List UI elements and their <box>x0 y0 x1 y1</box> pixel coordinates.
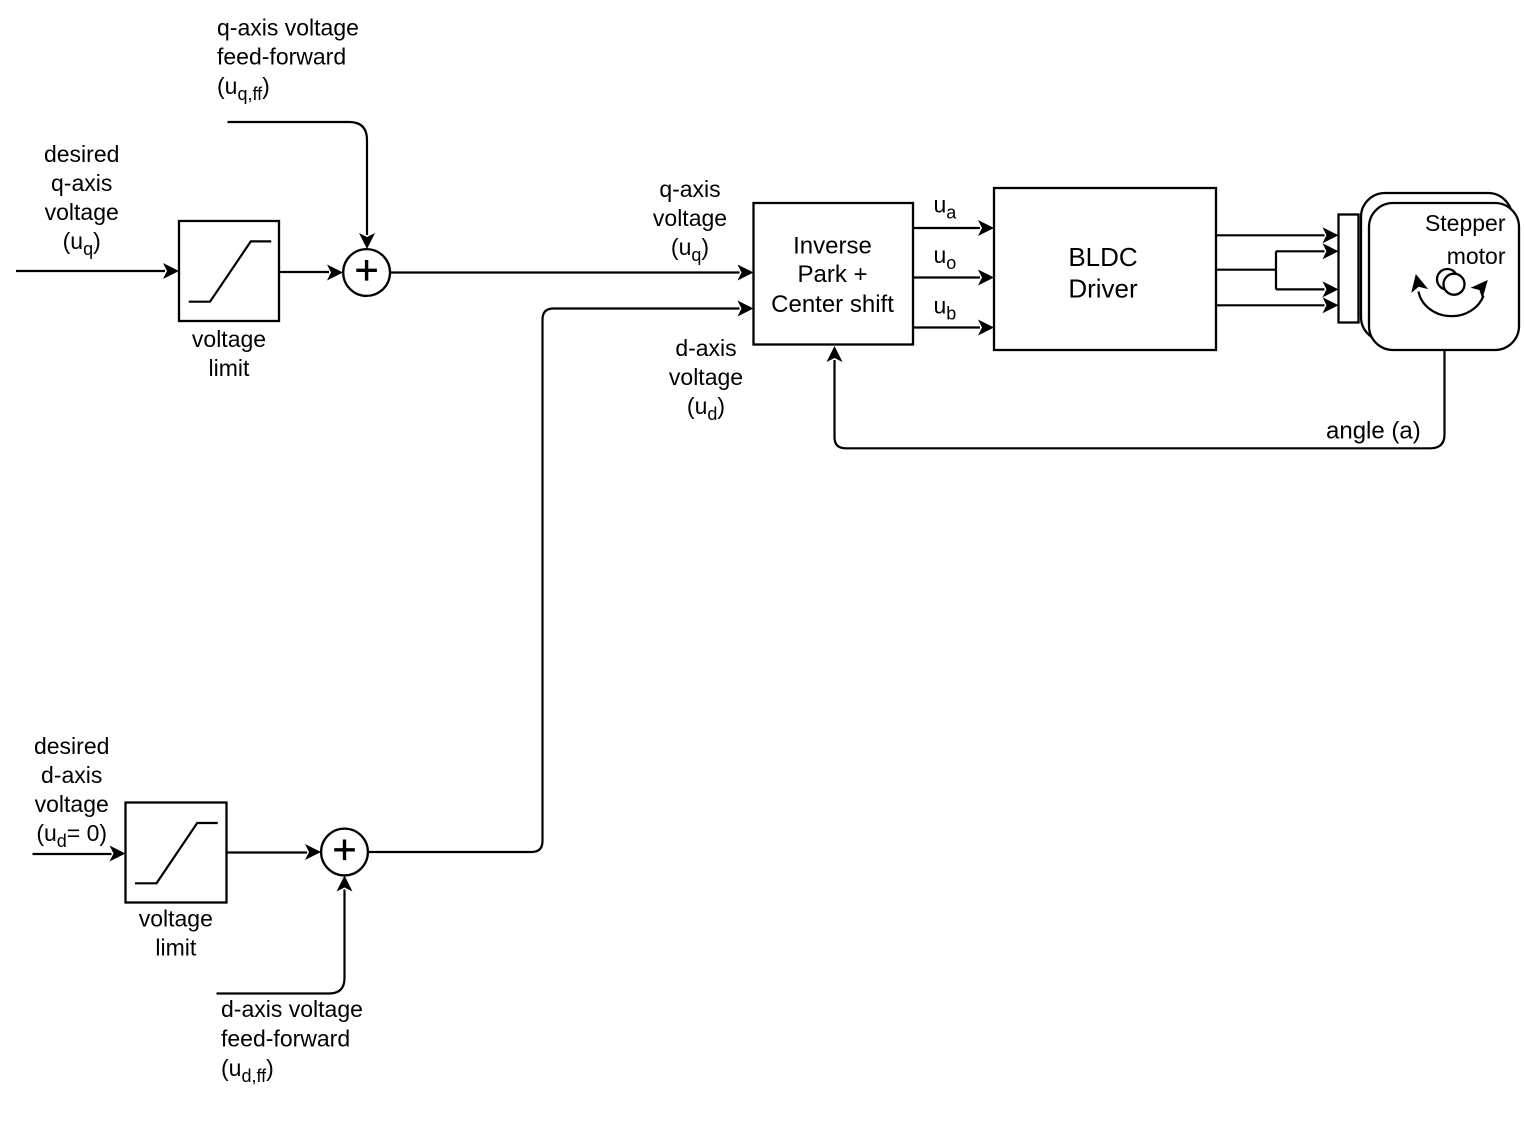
svg-text:Inverse: Inverse <box>793 233 872 260</box>
svg-text:BLDC: BLDC <box>1068 242 1137 272</box>
svg-text:voltage: voltage <box>139 906 213 932</box>
svg-text:q-axis: q-axis <box>51 170 112 196</box>
svg-text:voltage: voltage <box>45 199 119 225</box>
svg-text:d-axis: d-axis <box>675 335 736 361</box>
svg-text:q-axis voltage: q-axis voltage <box>217 15 359 41</box>
svg-text:d-axis: d-axis <box>41 762 102 788</box>
svg-text:Stepper: Stepper <box>1425 210 1506 236</box>
svg-text:voltage: voltage <box>35 791 109 817</box>
svg-text:motor: motor <box>1447 243 1506 269</box>
svg-text:limit: limit <box>209 355 250 381</box>
svg-text:voltage: voltage <box>653 205 727 231</box>
svg-text:Park +: Park + <box>797 261 867 288</box>
svg-text:feed-forward: feed-forward <box>217 43 346 69</box>
svg-text:angle (a): angle (a) <box>1326 418 1421 445</box>
svg-text:Driver: Driver <box>1068 273 1138 303</box>
svg-text:q-axis: q-axis <box>659 176 720 202</box>
svg-text:feed-forward: feed-forward <box>221 1026 350 1052</box>
svg-text:Center shift: Center shift <box>771 291 894 318</box>
svg-text:limit: limit <box>155 935 196 961</box>
svg-text:voltage: voltage <box>669 364 743 390</box>
svg-text:desired: desired <box>44 141 119 167</box>
svg-text:desired: desired <box>34 733 109 759</box>
svg-text:d-axis voltage: d-axis voltage <box>221 996 363 1022</box>
svg-text:voltage: voltage <box>192 326 266 352</box>
